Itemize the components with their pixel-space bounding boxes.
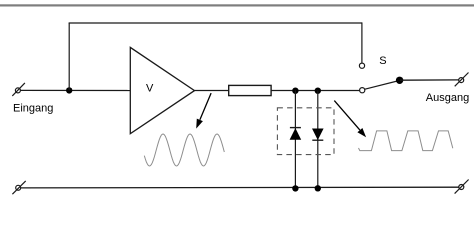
top toolbar divider line: [0, 4, 474, 6]
wire: feedback drop to switch upper contact: [361, 22, 363, 63]
node: bottom rail dot left: [292, 185, 298, 191]
dashed selection box around diodes: [277, 108, 334, 155]
clipped trapezoid waveform (output signal): [359, 131, 453, 151]
wire: right diode branch vertical: [317, 91, 319, 189]
switch S lower contact circle: [360, 88, 365, 93]
bottom-left terminal circle: [16, 185, 21, 190]
diode D2 (right, pointing down): [312, 129, 324, 141]
wire: feedback vertical up from junction: [68, 23, 70, 90]
wire: resistor to switch lower contact: [271, 90, 359, 92]
svg-text:S: S: [379, 55, 386, 67]
svg-text:V: V: [146, 83, 154, 95]
annotation arrow to sine waveform: [196, 93, 211, 129]
wire: bottom return rail: [21, 186, 459, 189]
bottom-left terminal slash: [12, 181, 25, 194]
input terminal circle (Eingang): [15, 88, 20, 93]
input terminal slash: [12, 83, 25, 96]
bottom-right terminal slash: [455, 180, 469, 194]
node: diode tap dot left: [292, 88, 298, 94]
output terminal circle (Ausgang): [459, 78, 464, 83]
resistor R: [229, 85, 271, 95]
wire: input line from input terminal to amplifier: [20, 89, 130, 91]
sine waveform (input signal): [144, 134, 224, 166]
output terminal slash: [455, 73, 469, 87]
bottom-right terminal circle: [459, 185, 464, 190]
svg-text:Ausgang: Ausgang: [426, 92, 469, 104]
node: diode tap dot right: [315, 88, 321, 94]
wire: feedback top horizontal run: [69, 22, 362, 24]
annotation arrow to clipped waveform: [334, 101, 366, 138]
node: bottom rail dot right: [315, 185, 321, 191]
switch S upper contact circle: [359, 63, 364, 68]
switch lever: [364, 81, 399, 90]
node: junction dot at feedback tap: [66, 87, 72, 93]
wire: switch pivot to output terminal: [400, 79, 459, 81]
svg-text:Eingang: Eingang: [13, 102, 53, 114]
op-amp V (amplifier triangle): [130, 47, 194, 133]
diode D1 (left, pointing up): [290, 128, 302, 140]
switch pivot dot: [396, 77, 403, 84]
wire: left diode branch vertical: [294, 91, 296, 189]
wire: amplifier output to resistor: [195, 90, 229, 92]
